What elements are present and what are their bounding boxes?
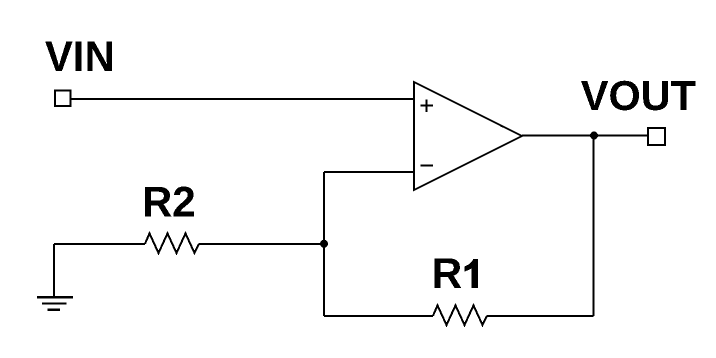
resistor R2 xyxy=(145,233,199,253)
terminal VIN xyxy=(55,90,71,106)
op-amp pin - (inverting input mark) xyxy=(420,165,433,167)
resistor R1 xyxy=(433,305,487,325)
wire VIN to op-amp + input xyxy=(71,98,414,100)
wire op-amp - input to feedback node xyxy=(324,171,414,173)
wire output node vertical xyxy=(593,136,595,316)
wire feedback node to R1 xyxy=(324,315,433,317)
node feedback junction xyxy=(320,240,328,248)
wire R2 to feedback node xyxy=(199,243,324,245)
label VIN xyxy=(45,41,112,71)
node output junction xyxy=(590,132,598,140)
op-amp pin + (non-inverting input mark) xyxy=(420,99,433,112)
wire op-amp output to VOUT terminal xyxy=(522,135,648,137)
label R2 xyxy=(145,186,194,216)
op-amp xyxy=(414,82,522,190)
ground xyxy=(37,297,73,310)
wire ground to R2 xyxy=(54,244,145,297)
wire feedback node vertical xyxy=(323,172,325,316)
terminal VOUT xyxy=(648,128,665,145)
label VOUT xyxy=(581,81,696,111)
label R1 xyxy=(435,258,478,288)
wire R1 to output node xyxy=(487,315,594,317)
